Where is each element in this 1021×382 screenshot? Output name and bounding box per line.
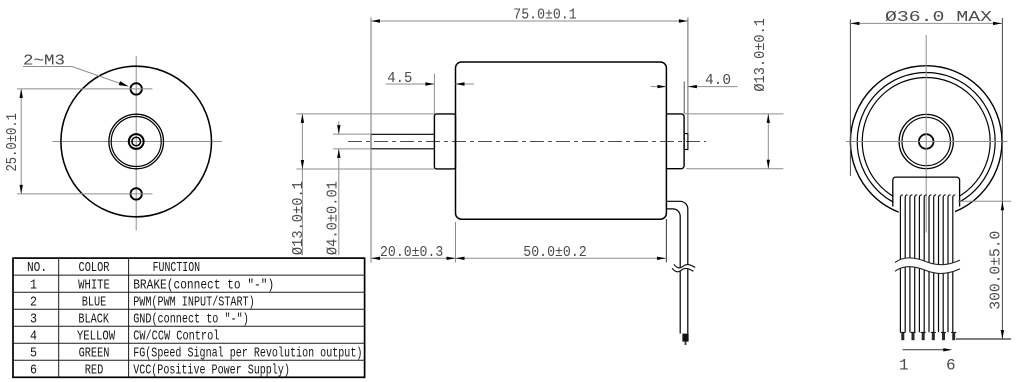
shaft boss circle (129, 134, 144, 149)
dimension line 50.0 (456, 257, 667, 259)
top hole crosshair / extension line (17, 88, 153, 90)
wire outer outline (666, 201, 687, 333)
dimension line 4.5 right segment (456, 83, 475, 85)
horizontal dash-dot centerline (348, 141, 706, 143)
extension line top (rear hub Ø13) (684, 113, 783, 115)
pin 5 terminal (941, 331, 946, 333)
extension line top 300.0 (958, 200, 1011, 202)
wire break wavy bottom (672, 268, 693, 272)
dimension line 300.0 (1001, 201, 1003, 339)
lead wires (12 strands) (900, 195, 955, 332)
extension stub left Ø36 (849, 20, 851, 177)
arrow 4.0 pointing left (688, 85, 697, 88)
bundle break wavy bottom (895, 267, 960, 274)
arrow up Ø13 right (767, 114, 770, 123)
rear hub ring outer (899, 114, 953, 168)
svg-text:20.0±0.3: 20.0±0.3 (380, 244, 443, 261)
bundle break white band (895, 258, 960, 274)
arrow right 20.0 (447, 257, 456, 260)
motor body (456, 62, 667, 219)
front hub (434, 114, 455, 169)
arrow down 25.0 (20, 185, 23, 194)
dimension line Ø36 (850, 22, 1002, 24)
arrow down Ø13 right (767, 160, 770, 169)
top mounting hole M3 (131, 83, 142, 94)
extension line top (front hub Ø13 left) (296, 113, 434, 115)
rear hub ring inner (902, 117, 950, 165)
pin terminals row (900, 332, 956, 340)
arrow down Ø13 left (301, 160, 304, 169)
dimension line 75.0 (371, 20, 688, 22)
svg-text:4.0: 4.0 (705, 72, 731, 89)
dimension line 25.0 (20, 89, 22, 194)
svg-text:2: 2 (30, 294, 37, 310)
extension line 4.5 (front hub left edge) (433, 74, 435, 114)
svg-text:Ø36.0 MAX: Ø36.0 MAX (885, 9, 992, 26)
table column divider 1 (58, 258, 60, 377)
table row line 1 (13, 274, 365, 276)
arrow down Ø4 (337, 125, 340, 134)
dimension line Ø13 left (301, 114, 303, 255)
arrow 4.5 pointing right (425, 82, 434, 85)
table row line 5 (13, 342, 365, 344)
extension line bottom (rear hub Ø13) (686, 168, 783, 170)
table row line 2 (13, 291, 365, 293)
dimension line Ø4 upper segment (338, 122, 340, 135)
arrow up 25.0 (20, 89, 23, 98)
arrow down 300.0 (1001, 330, 1004, 339)
svg-text:VCC(Positive Power Supply): VCC(Positive Power Supply) (133, 362, 290, 378)
pin 1 terminal (900, 331, 905, 333)
extension line top (shaft Ø4) (333, 133, 371, 135)
dimension line 4.5 left segment (386, 83, 435, 85)
extension line right (stub end, 75.0 / 4.0) (687, 18, 689, 134)
wire inner outline (666, 209, 680, 334)
svg-text:75.0±0.1: 75.0±0.1 (513, 7, 576, 24)
arrow up Ø4 (337, 149, 340, 158)
left view horizontal centerline (53, 141, 223, 143)
svg-text:FUNCTION: FUNCTION (153, 260, 201, 276)
svg-text:50.0±0.2: 50.0±0.2 (523, 244, 586, 261)
rear ring circle 2 (857, 73, 995, 211)
extension line bottom (front hub Ø13 left) (296, 168, 434, 170)
connector tail (685, 342, 687, 345)
pin 6 terminal (951, 331, 956, 333)
svg-text:CW/CCW Control: CW/CCW Control (133, 328, 219, 344)
dimension line 4.0 left segment (651, 86, 667, 88)
dimension line 4.0 right segment (688, 86, 738, 88)
extension line 4.0 (rear hub right edge) (683, 82, 685, 114)
svg-text:YELLOW: YELLOW (77, 328, 116, 344)
bundle break wavy top (895, 258, 960, 265)
bottom mounting hole M3 (131, 188, 142, 199)
shaft top line (371, 133, 434, 135)
extension line bottom 300.0 (956, 338, 1011, 340)
shaft center hole circle (132, 137, 141, 146)
svg-text:4: 4 (30, 328, 37, 344)
extension line (body left edge, 20/50) (455, 222, 457, 263)
table row line 3 (13, 308, 365, 310)
left view outer circle (61, 66, 212, 217)
shaft bottom line (371, 148, 434, 150)
white mask for lead housing (893, 177, 960, 207)
svg-text:WHITE: WHITE (78, 277, 110, 293)
svg-text:FG(Speed Signal per Revolution: FG(Speed Signal per Revolution output) (133, 345, 362, 361)
leader arrowhead (119, 81, 129, 86)
wire end connector (682, 334, 688, 342)
lead housing outline (893, 177, 960, 206)
table outer border (13, 258, 365, 377)
hub ring outer circle (109, 114, 164, 169)
extension line bottom (shaft Ø4) (333, 148, 371, 150)
table column divider 2 (128, 258, 130, 377)
dimension line Ø13 right (767, 114, 769, 169)
svg-text:5: 5 (30, 345, 37, 361)
pin 3 terminal (921, 331, 926, 333)
rear view horizontal centerline (846, 141, 1008, 143)
white mask for lead bundle (899, 196, 955, 345)
bottom hole crosshair / extension line (17, 193, 153, 195)
extension stub right Ø36 (1001, 18, 1003, 202)
svg-text:3: 3 (30, 311, 37, 327)
svg-text:GND(connect to ″-″): GND(connect to ″-″) (133, 311, 249, 327)
svg-text:1: 1 (30, 277, 37, 293)
arrow right 75.0 (679, 19, 688, 22)
left view vertical centerline (135, 56, 137, 231)
arrow left 20.0 (371, 257, 380, 260)
svg-text:300.0±5.0: 300.0±5.0 (987, 231, 1004, 310)
pin 2 terminal (910, 331, 915, 333)
svg-text:GREEN: GREEN (79, 345, 110, 361)
hub ring inner circle (111, 117, 161, 167)
table row line 4 (13, 325, 365, 327)
rear hub (666, 114, 684, 169)
arrow left Ø36 (850, 22, 859, 25)
table row line 6 (13, 359, 365, 361)
leader line to top hole (72, 67, 127, 86)
shaft end line (370, 134, 372, 149)
arrow up Ø13 left (301, 114, 304, 123)
rear outer circle (850, 66, 1002, 218)
svg-text:RED: RED (85, 362, 104, 378)
rear shaft stub (684, 134, 688, 150)
svg-text:BLACK: BLACK (78, 311, 109, 327)
dimension line 20.0 (371, 257, 456, 259)
wire break wavy top (674, 264, 695, 268)
svg-text:25.0±0.1: 25.0±0.1 (4, 113, 21, 172)
arrow right 50.0 (657, 257, 666, 260)
svg-text:1: 1 (899, 357, 909, 375)
arrow 4.0 pointing right (657, 85, 666, 88)
svg-text:Ø13.0±0.1: Ø13.0±0.1 (752, 18, 769, 92)
pin numbering arrow (903, 349, 949, 351)
rear ring circle 3 (862, 78, 990, 206)
label underline (23, 66, 72, 68)
svg-text:Ø4.0±0.01: Ø4.0±0.01 (325, 181, 342, 255)
arrow 4.5 pointing left (456, 82, 465, 85)
svg-text:4.5: 4.5 (387, 70, 412, 87)
svg-text:PWM(PWM INPUT/START): PWM(PWM INPUT/START) (133, 294, 255, 310)
svg-text:BLUE: BLUE (82, 294, 107, 310)
arrow up 300.0 (1001, 201, 1004, 210)
svg-text:6: 6 (946, 357, 956, 375)
rear shaft circle (919, 134, 934, 149)
dimension line Ø4 lower segment (338, 149, 340, 255)
arrow left 50.0 (456, 257, 465, 260)
wire break white band (672, 264, 695, 271)
rear view vertical centerline (925, 35, 927, 233)
svg-text:BRAKE(connect to ″-″): BRAKE(connect to ″-″) (133, 277, 274, 293)
svg-text:Ø13.0±0.1: Ø13.0±0.1 (290, 181, 307, 255)
svg-text:6: 6 (30, 362, 37, 378)
svg-text:COLOR: COLOR (79, 260, 110, 276)
svg-text:NO.: NO. (27, 260, 47, 276)
arrow left 75.0 (371, 19, 380, 22)
extension line (body right edge, 50) (665, 219, 667, 262)
extension line left (shaft end, 75.0 / 20.0) (370, 18, 372, 263)
arrow right Ø36 (993, 22, 1002, 25)
pin 4 terminal (931, 331, 936, 333)
